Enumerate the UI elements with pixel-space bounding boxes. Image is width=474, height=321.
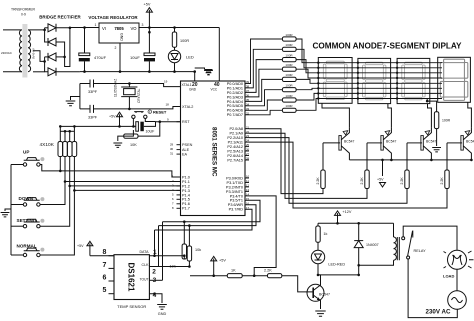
svg-text:P3.4/T0: P3.4/T0 (230, 194, 243, 198)
transformer secondary winding (28, 30, 31, 72)
wire lamp to source (456, 269, 458, 291)
svg-text:100R: 100R (285, 84, 293, 88)
DS1621 pin 4 number (153, 292, 157, 299)
+5V label emitter rail (377, 178, 384, 182)
svg-text:P1.5: P1.5 (182, 198, 190, 202)
regulator pin 3 (142, 23, 144, 27)
svg-text:XTAL1: XTAL1 (182, 83, 192, 87)
BC547 label Q3 (426, 140, 436, 144)
svg-text:P2.4/A12: P2.4/A12 (227, 145, 243, 149)
BC547 label Q2 (386, 140, 396, 144)
wire display 3 to collector (428, 104, 432, 128)
junction coil return (357, 264, 360, 267)
wire 2.2K top Q2 (366, 143, 368, 170)
wire to ground symbol (195, 68, 205, 70)
svg-text:P1.0: P1.0 (182, 175, 190, 179)
wire RN col2 bottom (64, 157, 66, 182)
svg-text:PSEN: PSEN (182, 143, 193, 147)
regulator pin 2 (115, 46, 117, 50)
junction RN4 (73, 125, 76, 128)
primary voltage label (1, 51, 13, 55)
svg-text:19: 19 (164, 80, 168, 84)
junction +5V node (148, 26, 151, 29)
wire display 4 to collector (468, 102, 472, 127)
wire secondary top tap (28, 29, 45, 31)
svg-text:COMMON ANODE7-SEGMENT DIPLAY: COMMON ANODE7-SEGMENT DIPLAY (312, 42, 462, 51)
transistor Q2 BC547 display driver (381, 128, 392, 160)
svg-text:P3.3/INT1: P3.3/INT1 (226, 190, 243, 194)
svg-text:P1.1: P1.1 (182, 180, 190, 184)
7-segment display DISP2 (358, 58, 391, 103)
segment bus junction dots (317, 62, 398, 100)
MCU right pin stubs (245, 84, 249, 210)
svg-text:P3.1/TXD: P3.1/TXD (227, 181, 244, 185)
resistor 10K reset (124, 134, 138, 138)
DS1621 pin 2 number (152, 269, 156, 276)
svg-text:ALE: ALE (182, 148, 190, 152)
svg-text:P2.7/A15: P2.7/A15 (227, 158, 243, 162)
svg-text:GND: GND (158, 312, 167, 316)
junction RN1 (59, 125, 62, 128)
svg-text:P2.0/A8: P2.0/A8 (229, 127, 243, 131)
svg-text:10UF: 10UF (130, 55, 140, 60)
MCU pin 40 number (214, 82, 220, 88)
100R dp label (442, 119, 451, 123)
wire button common vertical (10, 165, 12, 256)
junction col3 SETTING wire (68, 185, 71, 188)
svg-text:+5V: +5V (77, 244, 84, 248)
wire primary bottom (3, 71, 22, 73)
relay contacts switch (402, 231, 413, 260)
wire D3 right (56, 56, 65, 58)
svg-text:P0.5/AD5: P0.5/AD5 (227, 104, 243, 108)
diode D5 1N4007 flyback (354, 223, 363, 275)
10K value label (130, 143, 137, 147)
svg-text:2.2K: 2.2K (316, 177, 320, 185)
MCU pin label PSEN (182, 143, 193, 147)
svg-text:0-9: 0-9 (21, 13, 26, 17)
wire display 2 to collector (388, 104, 392, 128)
resistor 2.2K base chain (268, 274, 282, 278)
junction LED bottom (173, 70, 176, 73)
wire P2.2 to driver 3 (249, 138, 407, 204)
svg-text:P3.2/INT0: P3.2/INT0 (226, 185, 243, 189)
crystal frequency label (114, 79, 118, 97)
wire +5V tap stem (382, 160, 384, 176)
resistor 10k pullup1 (182, 244, 186, 259)
transistor Q3 BC547 display driver (421, 128, 432, 160)
DS1621 pin 7 stub (109, 267, 115, 269)
DS1621 pin 6 number (103, 275, 107, 282)
wire NORMAL left (11, 254, 23, 256)
svg-text:10k: 10k (170, 265, 176, 269)
svg-text:EA: EA (182, 153, 188, 157)
svg-text:TEMP SENSOR: TEMP SENSOR (117, 304, 146, 309)
wire DS1621 VDD line (90, 255, 114, 257)
wire TOUT to P3.5 (163, 200, 261, 221)
wire DOWN to P1.1 (40, 182, 180, 205)
DS1621 pin 5 number (103, 287, 107, 294)
LED label (186, 55, 194, 60)
wire bottom tap to D4 anode (33, 71, 45, 73)
svg-text:P0.4/AD4: P0.4/AD4 (227, 100, 243, 104)
svg-text:BC547: BC547 (344, 140, 354, 144)
junction pullup2 top (188, 224, 191, 227)
svg-text:470UF: 470UF (94, 55, 107, 60)
svg-text:P3.5/T1: P3.5/T1 (230, 199, 243, 203)
wire ground rail to MCU pin20 (194, 72, 196, 81)
wire 2.2K top Q3 (406, 143, 408, 170)
100R label 8 (285, 104, 293, 108)
2.2K label Q4 (440, 177, 444, 185)
svg-text:4X10K: 4X10K (40, 142, 55, 148)
junction crystal top (128, 82, 131, 85)
100R label 2 (285, 43, 293, 47)
segment bus wires (318, 63, 442, 99)
svg-text:BC547: BC547 (466, 140, 474, 144)
svg-text:P2.6/A14: P2.6/A14 (227, 154, 243, 158)
svg-text:RST: RST (182, 120, 190, 124)
wire mid tap join (33, 51, 45, 62)
svg-text:RELAY: RELAY (414, 249, 427, 253)
svg-text:CLK: CLK (142, 263, 150, 267)
regulator pin 1 (95, 23, 97, 27)
resistor network RN1 element 2 (63, 142, 68, 157)
wire TOUT riser (162, 222, 164, 281)
wire joining 33PF caps (79, 84, 81, 109)
svg-text:+5V: +5V (144, 3, 151, 7)
svg-text:DATA: DATA (139, 250, 149, 254)
2.2K label Q1 (316, 177, 320, 185)
wire DATA riser (154, 230, 156, 256)
MCU left pin numbers (170, 142, 174, 210)
+5V down arrow (380, 183, 386, 188)
secondary voltage label (32, 48, 36, 59)
7-segment display DISP4 large (438, 57, 471, 102)
DS1621 pin 5 stub (109, 293, 115, 295)
wire P3.4 to chain (249, 196, 276, 276)
svg-text:GND: GND (120, 33, 124, 41)
svg-text:BC547: BC547 (386, 140, 396, 144)
svg-text:P0.3/AD3: P0.3/AD3 (227, 95, 243, 99)
push button SETTING (23, 219, 44, 228)
svg-text:P1.4: P1.4 (182, 193, 190, 197)
svg-text:GND: GND (189, 87, 197, 91)
wire collector up (320, 275, 322, 282)
svg-text:+5V: +5V (219, 259, 226, 263)
svg-text:7805: 7805 (114, 26, 124, 31)
ground symbol reset (113, 143, 122, 147)
diode D4 (48, 68, 56, 76)
LED-RED label (328, 262, 345, 266)
resistor 10k pullup2 (187, 246, 191, 261)
33PF value label 1 (88, 90, 98, 94)
+5V arrow DS1621 (87, 241, 93, 246)
2.2K label Q2 (360, 177, 364, 185)
junction 470UF bottom (83, 70, 86, 73)
junction +12V rail (336, 222, 339, 225)
MCU pin 20 number (192, 82, 198, 88)
wire UP left (11, 164, 23, 166)
wires P0 to ladder (249, 39, 282, 115)
wire reset btn left down (132, 119, 134, 127)
wire to D1 anode (45, 27, 48, 29)
svg-text:18: 18 (166, 103, 170, 107)
1N4007 label (366, 243, 379, 247)
svg-text:P0.6/AD6: P0.6/AD6 (227, 109, 243, 113)
wire +5V to reset node (119, 117, 121, 127)
transistor Q1 BC547 display driver (339, 128, 350, 160)
wire CLK riser (158, 226, 160, 267)
svg-text:P1.3: P1.3 (182, 189, 190, 193)
wire reset top rail (60, 125, 133, 127)
svg-text:P1.6: P1.6 (182, 202, 190, 206)
junction +5V chain (212, 274, 215, 277)
junction emitter Q3 (430, 159, 433, 162)
svg-text:2: 2 (152, 269, 156, 276)
svg-text:10: 10 (246, 175, 250, 179)
pin number 9 (167, 118, 169, 122)
junction RN3 (68, 130, 71, 133)
wire RN col4 bottom (73, 157, 75, 191)
BC547 label Q1 (344, 140, 354, 144)
svg-text:28: 28 (246, 157, 250, 161)
reset label with callout (148, 109, 167, 114)
svg-text:31: 31 (170, 152, 174, 156)
MCU pin label XTAL1 (182, 83, 192, 87)
svg-text:VOLTAGE REGULATOR: VOLTAGE REGULATOR (88, 15, 138, 20)
svg-text:33PF: 33PF (88, 90, 98, 94)
MCU left pin stubs (177, 122, 181, 209)
svg-text:10k: 10k (195, 248, 201, 252)
wire RN col1 top (59, 126, 61, 141)
DS1621 pin 7 number (103, 262, 107, 269)
svg-text:13: 13 (246, 188, 250, 192)
transformer T1 core (22, 24, 27, 78)
diode D3 (48, 53, 56, 61)
svg-text:1N4007: 1N4007 (366, 243, 379, 247)
svg-text:10K: 10K (130, 143, 137, 147)
display title (312, 42, 462, 51)
svg-text:30: 30 (170, 147, 174, 151)
crystal X1 11.0592MHZ (121, 84, 137, 109)
10UF value label (130, 55, 140, 60)
wire 100R dp to ground (436, 129, 438, 146)
svg-text:1: 1 (95, 23, 97, 27)
resistor 100R dp (434, 112, 438, 129)
MCU pin label EA (182, 153, 188, 157)
junction top tap (43, 29, 46, 32)
wire CLK to P3.6 (159, 205, 257, 226)
ground symbol crystal (66, 101, 76, 106)
push button NORMAL (23, 248, 44, 257)
DS1621 name text (127, 263, 136, 292)
svg-text:100R: 100R (285, 33, 293, 37)
2.2K label (264, 269, 272, 273)
svg-text:100R: 100R (180, 39, 189, 43)
wire RN col3 top (69, 131, 71, 141)
wire LED to collector (318, 274, 321, 276)
LOAD label (443, 274, 454, 279)
junction RN2 (64, 130, 67, 133)
RELAY label (414, 249, 427, 253)
wire +5V stem to chain (213, 261, 215, 276)
svg-text:P2.1/A9: P2.1/A9 (229, 132, 243, 136)
SETTING button label (17, 218, 37, 223)
100R label 4 (285, 63, 293, 67)
svg-text:2: 2 (115, 46, 117, 50)
svg-text:UP: UP (23, 150, 29, 155)
7-segment display DISP3 (397, 58, 430, 103)
resistor 100R segment 1 (282, 37, 296, 41)
resistor network RN1 element 4 (72, 142, 77, 157)
wire NORMAL to P1.3 (40, 190, 180, 255)
LED-RED indicator (311, 250, 324, 275)
wire DOWN left (11, 204, 23, 206)
4X10K network label (40, 142, 55, 148)
wire relay contact to lamp (403, 226, 457, 250)
svg-text:6: 6 (103, 275, 107, 282)
diode D1 (48, 24, 56, 32)
crystal name label (137, 88, 141, 103)
470UF value label (94, 55, 107, 60)
100R label 6 (285, 84, 293, 88)
ground symbol dp (432, 148, 441, 152)
wire P2.3 to driver 4 (249, 142, 447, 208)
wire TOUT (149, 279, 162, 281)
pin number 19 (164, 80, 168, 84)
junction regulator gnd (119, 70, 122, 73)
NORMAL button label (17, 244, 37, 249)
svg-text:LOAD: LOAD (443, 274, 454, 279)
DS1621 pin 8 stub (109, 255, 115, 257)
temperature sensor U3 DS1621 (114, 255, 149, 300)
resistor 100R segment 4 (282, 67, 296, 71)
svg-text:RESET: RESET (153, 109, 167, 114)
resistor 2.2K base Q2 (365, 170, 369, 189)
capacitor C2 10UF (144, 32, 155, 71)
wire P2.0 to driver 1 (249, 129, 323, 194)
svg-text:25: 25 (246, 143, 250, 147)
svg-text:P0.0/AD0: P0.0/AD0 (227, 82, 243, 86)
DS1621 CLK label (142, 263, 150, 267)
wire UP to P1.0 (40, 165, 180, 178)
svg-text:2.2K: 2.2K (400, 177, 404, 185)
svg-text:100R: 100R (285, 63, 293, 67)
capacitor 33PF C4 (80, 105, 105, 113)
wire 1k to LED (317, 242, 319, 250)
transformer label (11, 8, 35, 12)
resistor 100R LED series (172, 32, 176, 47)
wires ladder to display bus (296, 39, 318, 110)
100R label 5 (285, 73, 293, 77)
capacitor 10UF reset (133, 122, 148, 132)
10UF reset value label (146, 130, 156, 134)
push button UP (23, 157, 44, 166)
bridge rectifier label (39, 15, 81, 20)
wire to D3 left (45, 56, 48, 58)
svg-text:VO: VO (130, 26, 137, 31)
wire reset btn right (145, 119, 155, 122)
junction dp resistor (426, 100, 429, 103)
wire pullup1 to DATA (183, 256, 185, 259)
svg-text:230VAC: 230VAC (1, 51, 13, 55)
wire regulator GND down (119, 43, 121, 72)
ground symbol buttons (1, 213, 10, 217)
svg-text:P3.0/RXD: P3.0/RXD (226, 176, 243, 180)
wire pullup2 to CLK (188, 261, 190, 267)
reset push button (132, 112, 147, 119)
UP button label (23, 150, 29, 155)
MCU right pin numbers (246, 80, 250, 210)
MCU GND label (189, 87, 197, 91)
wire to crystal ground (71, 97, 80, 101)
capacitor 33PF C3 (80, 80, 105, 88)
svg-text:230V AC: 230V AC (426, 309, 451, 316)
+12V arrow relay (335, 211, 341, 216)
wire D3-D4 left join (45, 57, 48, 72)
1k label relay (323, 232, 327, 236)
wire RN col3 bottom (69, 157, 71, 186)
svg-text:5: 5 (103, 287, 107, 294)
junction chain mid (253, 274, 256, 277)
wire pullup1 upper (183, 222, 185, 244)
1K label (231, 269, 236, 273)
svg-text:P1.2: P1.2 (182, 184, 190, 188)
resistor 1K base chain (227, 274, 242, 278)
svg-text:VI: VI (102, 26, 106, 31)
wire relay +12V rail (318, 222, 394, 224)
wire 2.2K top Q4 (446, 143, 448, 170)
100R label 1 (285, 33, 293, 37)
resistor network RN1 element 3 (67, 142, 72, 157)
+5V label (144, 3, 151, 7)
junction col4 NORMAL wire (73, 189, 76, 192)
resistor 2.2K base Q3 (405, 170, 409, 189)
svg-text:11: 11 (246, 179, 249, 183)
resistor 100R segment 3 (282, 58, 296, 62)
33PF value label 2 (88, 116, 98, 120)
TEMP SENSOR label (117, 304, 146, 309)
svg-text:P3.6/WR: P3.6/WR (228, 203, 243, 207)
MCU P3 pin labels (226, 176, 243, 211)
wire 2.2K top Q1 (322, 143, 324, 170)
7-segment display DISP1 (318, 58, 352, 104)
wire RN col2 top (64, 131, 66, 141)
wire DATA to P3.7 (155, 209, 253, 230)
svg-text:1k: 1k (323, 232, 327, 236)
junction LED branch top (173, 26, 176, 29)
relay coil (359, 223, 400, 265)
junction pullup2 CLK (188, 265, 191, 268)
svg-text:33PF: 33PF (88, 116, 98, 120)
svg-text:12: 12 (246, 184, 250, 188)
wire primary top (3, 29, 22, 31)
push button DOWN (23, 197, 44, 206)
junction DATA (153, 254, 156, 257)
svg-text:DS1621: DS1621 (127, 263, 136, 292)
svg-text:LED: LED (186, 55, 194, 60)
wire to button ground (5, 209, 11, 211)
wire P2.1 to driver 2 (249, 133, 367, 198)
junction 1N4007 bottom (357, 274, 360, 277)
wire chain left (190, 275, 227, 277)
wire +5V arrow stem (148, 12, 150, 32)
ground symbol near MCU (204, 71, 213, 75)
junction crystal bottom (128, 108, 131, 111)
junction LED collector (317, 274, 320, 277)
svg-text:BRIDGE RECTIFIER: BRIDGE RECTIFIER (39, 15, 81, 20)
